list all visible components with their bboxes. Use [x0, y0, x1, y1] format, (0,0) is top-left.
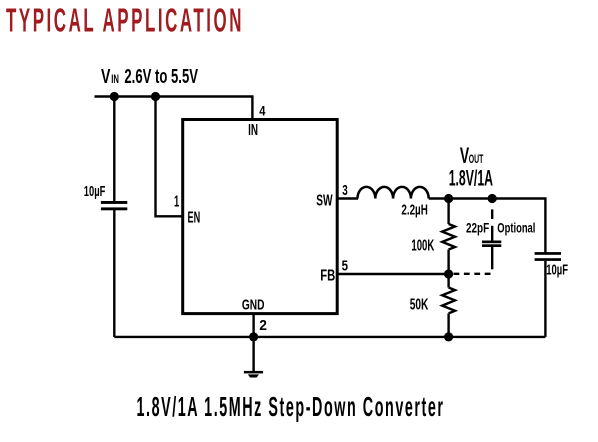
svg-text:4: 4	[259, 103, 265, 119]
wire bottom ground rail	[114, 336, 545, 338]
wire dashed FB to C-ff	[454, 273, 493, 275]
svg-text:10µF: 10µF	[84, 184, 106, 200]
wire VOUT rail	[429, 199, 546, 254]
inductor L1 2.2uH	[358, 187, 429, 199]
wire C-out bottom lead	[544, 261, 546, 337]
capacitor C-out 10uF	[535, 252, 561, 261]
svg-text:50K: 50K	[410, 297, 429, 314]
svg-text:V: V	[101, 65, 111, 88]
wire SW stub	[338, 197, 358, 199]
svg-text:IN: IN	[248, 122, 258, 139]
node VOUT label	[449, 143, 493, 190]
svg-text:1.8V/1A 1.5MHz Step-Down Conve: 1.8V/1A 1.5MHz Step-Down Converter	[137, 391, 445, 422]
svg-text:1.8V/1A: 1.8V/1A	[449, 165, 493, 190]
svg-text:GND: GND	[242, 296, 265, 313]
svg-text:100K: 100K	[411, 237, 434, 254]
node junction dot FB	[444, 269, 453, 278]
svg-text:Optional: Optional	[497, 220, 535, 235]
node junction dot VOUT-R1	[444, 194, 453, 203]
svg-text:FB: FB	[320, 268, 335, 285]
svg-text:10µF: 10µF	[546, 263, 568, 279]
wire FB	[338, 273, 449, 275]
resistor R1 100K	[442, 199, 455, 275]
wire C1 top lead	[113, 97, 115, 202]
node VIN label	[101, 65, 198, 88]
wire GND pin 2	[252, 314, 254, 337]
wire C-ff bottom lead	[491, 247, 493, 269]
svg-text:3: 3	[342, 182, 348, 199]
svg-text:TYPICAL APPLICATION: TYPICAL APPLICATION	[6, 2, 244, 39]
capacitor C-ff 22pF	[482, 241, 501, 248]
wire EN feed	[156, 97, 183, 217]
svg-text:OUT: OUT	[469, 154, 484, 166]
svg-text:1: 1	[174, 194, 179, 211]
svg-text:5: 5	[342, 258, 348, 275]
node junction dot GND	[249, 332, 258, 341]
svg-text:EN: EN	[188, 210, 201, 227]
node junction dot VIN-C1	[110, 92, 119, 101]
wire dashed C-ff top lead	[491, 209, 493, 219]
node junction dot VOUT-C22p	[488, 194, 497, 203]
svg-text:2.2µH: 2.2µH	[401, 203, 427, 219]
ground	[244, 337, 263, 378]
svg-text:2: 2	[259, 317, 267, 334]
node junction dot 50K-GND	[444, 332, 453, 341]
op-amp U1 IC body	[183, 120, 338, 314]
svg-text:2.6V to 5.5V: 2.6V to 5.5V	[124, 66, 198, 88]
wire C1 bottom lead / left rail	[113, 210, 115, 337]
svg-text:IN: IN	[111, 74, 119, 86]
node junction dot VIN-EN	[151, 92, 160, 101]
resistor R2 50K	[442, 274, 455, 337]
svg-text:SW: SW	[316, 193, 333, 210]
svg-text:22pF: 22pF	[466, 220, 489, 235]
capacitor C-in 10uF	[101, 201, 127, 210]
wire VIN top rail	[95, 97, 253, 120]
